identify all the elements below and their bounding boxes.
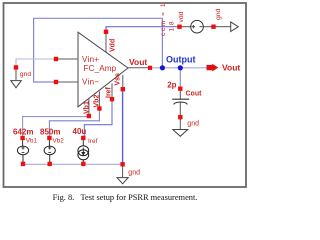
svg-text:1.8: 1.8 bbox=[169, 21, 176, 32]
svg-text:vdd: vdd bbox=[178, 11, 185, 22]
svg-text:Vb2: Vb2 bbox=[53, 138, 65, 145]
svg-text:40u: 40u bbox=[73, 127, 87, 136]
svg-text:gnd: gnd bbox=[215, 8, 222, 20]
svg-text:Fig. 8. Test setup for PSRR: Fig. 8. Test setup for PSRR measurement. bbox=[53, 193, 198, 202]
svg-text:ccm = 1: ccm = 1 bbox=[160, 2, 167, 36]
svg-text:Iref: Iref bbox=[106, 86, 113, 98]
svg-text:FC_Amp: FC_Amp bbox=[84, 64, 117, 73]
svg-text:Vout: Vout bbox=[129, 57, 147, 67]
svg-text:Output: Output bbox=[166, 54, 196, 64]
svg-text:Vb1: Vb1 bbox=[26, 138, 38, 145]
svg-text:Vin+: Vin+ bbox=[82, 55, 99, 64]
svg-text:Vdd: Vdd bbox=[110, 39, 117, 52]
svg-text:Vb2: Vb2 bbox=[94, 95, 101, 108]
svg-text:Vin−: Vin− bbox=[82, 77, 99, 86]
svg-text:Iref: Iref bbox=[88, 138, 98, 145]
svg-text:gnd: gnd bbox=[128, 170, 140, 177]
svg-text:Vss: Vss bbox=[115, 73, 122, 86]
svg-text:Cout: Cout bbox=[186, 91, 203, 98]
svg-text:642m: 642m bbox=[13, 128, 33, 137]
svg-text:Vb1: Vb1 bbox=[83, 101, 90, 114]
svg-text:gnd: gnd bbox=[20, 71, 32, 78]
svg-text:850m: 850m bbox=[40, 128, 60, 137]
svg-text:2p: 2p bbox=[167, 81, 176, 90]
svg-text:gnd: gnd bbox=[187, 121, 199, 128]
svg-text:Vout: Vout bbox=[222, 62, 240, 72]
